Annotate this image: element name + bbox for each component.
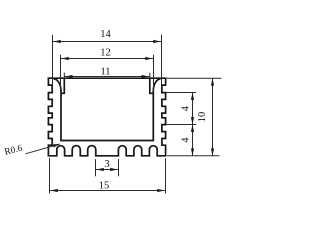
dimension 12 arrows (61, 57, 152, 60)
svg-text:10: 10 (197, 112, 208, 123)
right side horizontal extension lines (166, 78, 221, 156)
svg-text:11: 11 (100, 67, 110, 78)
dimension 12 extension lines (61, 55, 154, 92)
R0.6 leader arrow (53, 144, 61, 148)
svg-text:4: 4 (180, 137, 191, 143)
dimension 12 line (61, 58, 154, 60)
dimension 15 line (50, 190, 166, 192)
svg-text:12: 12 (100, 47, 111, 58)
dimension 3 arrows (96, 168, 117, 171)
dimension 11 line (64, 76, 150, 78)
dimension 14 line (53, 41, 162, 43)
aluminium profile outer outline with side teeth and bottom grooves (48, 78, 165, 156)
dimension 4 lower line (192, 125, 194, 156)
dimension 14 arrows (53, 40, 160, 43)
dimension 3 extension lines (96, 159, 119, 176)
dimension 4 upper line (192, 93, 194, 125)
dimension 11 extension lines (64, 73, 150, 80)
svg-text:3: 3 (104, 159, 109, 170)
left lip inner edge (61, 78, 64, 93)
dimension 15 arrows (50, 189, 164, 192)
svg-text:15: 15 (99, 180, 110, 191)
dimension 15 extension lines (50, 158, 166, 193)
right lip inner edge (150, 78, 154, 93)
dimension 11 arrows (65, 75, 149, 78)
dimension 3 line (96, 169, 119, 171)
svg-text:14: 14 (100, 29, 111, 40)
dimension 10 arrows (211, 78, 214, 156)
dimension 4 lower arrows (191, 125, 194, 156)
dimension 4 upper arrows (191, 93, 194, 125)
R0.6 leader line (26, 144, 60, 154)
dimension 10 line (212, 78, 214, 156)
svg-text:4: 4 (180, 105, 191, 111)
dimension 14 extension lines (53, 35, 162, 87)
inner cavity walls, cavity bottom and top corner radius arcs (54, 79, 161, 141)
